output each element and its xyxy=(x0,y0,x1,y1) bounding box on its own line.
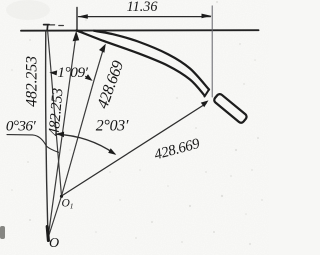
node angle arc 0°36' leader xyxy=(7,135,59,153)
svg-text:1°09′: 1°09′ xyxy=(57,64,88,81)
component blade bottom edge xyxy=(77,30,205,95)
svg-text:11.36: 11.36 xyxy=(127,0,159,15)
node angle 1°09' right arrow xyxy=(86,76,91,79)
node angle arc 2°03' xyxy=(57,134,115,154)
node right arrow of 11.36 xyxy=(202,14,212,19)
node left arrow of 11.36 xyxy=(78,14,88,19)
wire dimension line 11.36 xyxy=(79,16,211,18)
svg-text:0°36′: 0°36′ xyxy=(6,118,36,135)
svg-text:482.253: 482.253 xyxy=(24,56,41,107)
node arrow hook at datum over O radius xyxy=(44,25,50,31)
component blade heel cut xyxy=(205,90,210,97)
smudge left-edge blob xyxy=(0,226,5,239)
wire datum line xyxy=(21,29,259,32)
wire radius line O1 to heel joint (L4) xyxy=(62,104,207,197)
scan speckles xyxy=(11,1,263,245)
wire dashes right of hook xyxy=(50,24,63,27)
node angle 1°09' left arrow xyxy=(49,70,57,75)
svg-text:2°03′: 2°03′ xyxy=(96,118,129,135)
wire radius line O to blade tip xyxy=(48,34,76,239)
node arrowhead L4 end xyxy=(201,100,209,107)
node O thick foot xyxy=(47,227,48,241)
wire line O through O1 to arrow on blade underside (L3) xyxy=(48,47,104,238)
component detached rail end piece xyxy=(213,93,248,124)
wire line O1 to datum point (L2) xyxy=(48,32,62,197)
wire extension tick V2 at blade tip xyxy=(76,8,78,32)
svg-text:O: O xyxy=(49,236,59,251)
wire vertical radius line V1 (O to datum) xyxy=(46,31,48,238)
node arrowhead 2°03' arc start xyxy=(56,132,64,138)
wire extension line V3 at heel xyxy=(211,6,213,97)
node O1 dot xyxy=(60,195,63,198)
component blade top edge xyxy=(94,31,209,90)
smudge top-left xyxy=(6,0,50,20)
node arrowhead L3 end xyxy=(99,44,106,53)
node arrowhead 2°03' arc end xyxy=(108,148,116,155)
node arrowhead at tip xyxy=(73,31,80,41)
